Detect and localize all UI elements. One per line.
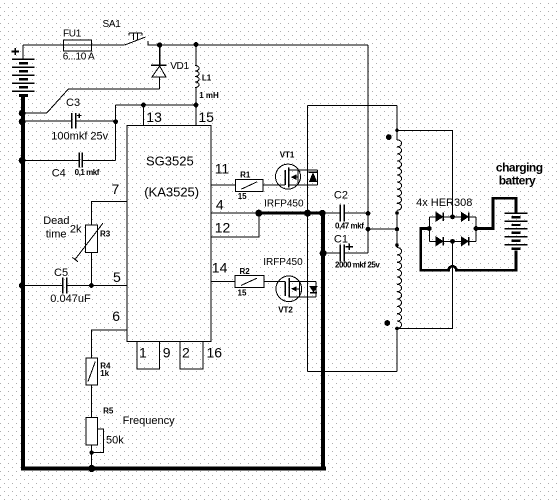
svg-text:50k: 50k: [106, 434, 124, 446]
wire: winding bottom to bridge: [397, 241, 453, 328]
svg-text:7: 7: [112, 181, 120, 197]
wire: thick bottom ground rail: [21, 467, 326, 471]
svg-text:4x HER308: 4x HER308: [416, 197, 472, 209]
svg-text:R3: R3: [100, 229, 111, 238]
svg-text:6...10 A: 6...10 A: [63, 51, 95, 62]
svg-text:SA1: SA1: [103, 19, 122, 30]
capacitor C5: [22, 278, 127, 294]
resistor R2: [235, 276, 264, 288]
wire: thick source rail vertical: [321, 213, 325, 468]
svg-text:1: 1: [139, 344, 147, 360]
capacitor C3: [22, 113, 116, 129]
svg-text:charging: charging: [496, 161, 543, 175]
capacitor C4: [22, 122, 116, 168]
svg-text:16: 16: [207, 344, 223, 360]
svg-text:VD1: VD1: [170, 61, 189, 72]
svg-text:2k: 2k: [70, 223, 82, 235]
IC U1 SG3525 body: [127, 125, 211, 341]
battery GB1 (input 12V) plates: [12, 59, 35, 91]
svg-text:FU1: FU1: [63, 29, 82, 40]
node: VD1 junction on +12V rail: [157, 42, 162, 47]
svg-text:L1: L1: [202, 73, 212, 82]
svg-text:R1: R1: [240, 171, 251, 180]
svg-text:IRFP450: IRFP450: [264, 198, 304, 209]
node: C2 right junction: [366, 211, 371, 216]
resistor R1: [235, 179, 263, 191]
svg-text:6: 6: [112, 308, 120, 324]
node: ground rail / R5 junction: [88, 465, 95, 472]
transistor VT2 (MOSFET): [276, 276, 317, 302]
svg-text:R2: R2: [240, 267, 251, 276]
svg-text:15: 15: [238, 192, 247, 201]
wire: pin 11 to R1: [211, 184, 235, 186]
node: L1 junction on +12V rail: [194, 42, 199, 47]
wire: bridge plus to charging battery: [476, 198, 516, 228]
node: C1 left junction: [320, 250, 327, 257]
transistor VT1 (MOSFET): [276, 164, 318, 189]
node: C2 left junction: [319, 210, 326, 217]
svg-text:C2: C2: [334, 190, 348, 202]
battery + sign: [11, 48, 19, 55]
node: pin4/12 junction: [255, 210, 262, 217]
svg-text:C3: C3: [66, 97, 80, 109]
svg-text:4: 4: [216, 197, 224, 213]
svg-text:15: 15: [198, 109, 214, 125]
capacitor C2: [323, 204, 368, 221]
wire: VT2 drain bottom to transformer: [308, 329, 398, 372]
wire: pin 12 to source node: [211, 213, 259, 237]
diode bridge 4x HER308: [427, 213, 479, 246]
node: C4 left junction on minus bus: [19, 157, 26, 164]
pin boxes 2/16: [180, 341, 203, 368]
body diode of VT1: [309, 171, 318, 173]
wire: thick battery minus bus: [21, 95, 25, 470]
trimmer R3: [72, 223, 103, 262]
svg-text:C1: C1: [334, 234, 348, 246]
wire: pin 13 stub: [143, 105, 145, 125]
wire: C3 to pins 13,15: [116, 105, 196, 122]
inductor L1: [195, 45, 196, 66]
transformer T1 winding: [396, 105, 398, 140]
svg-text:100mkf 25v: 100mkf 25v: [51, 131, 108, 143]
battery GB2 (charging) plates: [504, 213, 527, 244]
svg-text:(KA3525): (KA3525): [144, 185, 199, 200]
svg-text:VT2: VT2: [278, 306, 293, 315]
wire: center tap to +12V: [368, 228, 397, 230]
diode VD1: [151, 45, 167, 89]
wire: pin 4 to source node: [211, 212, 259, 214]
svg-text:13: 13: [146, 109, 162, 125]
wire: bridge minus to charging battery (thick loop): [421, 229, 516, 271]
wire: winding top to bridge: [397, 130, 453, 217]
wire: R5 bottom to ground rail: [91, 445, 93, 467]
svg-text:R5: R5: [103, 406, 114, 415]
svg-text:11: 11: [215, 160, 230, 176]
fuse FU1: [63, 40, 91, 51]
svg-text:battery: battery: [499, 174, 536, 188]
wire: thick source rail horizontal: [259, 212, 324, 215]
wire: L1 to pin 15: [195, 88, 196, 126]
resistor R4: [86, 358, 97, 385]
svg-text:14: 14: [212, 259, 228, 275]
svg-text:15: 15: [238, 289, 247, 298]
wire: +12V drop to C1/C2/center tap: [367, 45, 369, 253]
capacitor C1: [323, 244, 368, 261]
body diode of VT2: [310, 292, 317, 294]
svg-text:5: 5: [113, 269, 121, 285]
svg-text:0,47 mkf: 0,47 mkf: [335, 221, 364, 230]
svg-text:C4: C4: [52, 168, 66, 180]
wire: R3 bottom to pin 5 line: [90, 253, 92, 286]
wire: VD1 anode to battery minus (diagonal): [22, 89, 160, 113]
svg-text:2: 2: [182, 344, 190, 360]
node: R3/pin5 junction: [89, 283, 94, 288]
wire: pin 7 to R3: [91, 201, 126, 225]
node: winding section ends: [395, 211, 399, 215]
node: center tap junctions: [366, 227, 371, 232]
potentiometer R5: [86, 418, 104, 453]
wire: pin 14 to R2: [211, 281, 235, 283]
wire: top +12V rail: [23, 44, 368, 46]
svg-text:2000 mkf 25v: 2000 mkf 25v: [335, 260, 380, 269]
svg-text:9: 9: [163, 344, 171, 360]
node: VT1/VT2 source junction: [304, 210, 311, 217]
svg-text:0,1 mkf: 0,1 mkf: [75, 168, 100, 177]
wire: VT1 drain / VT2 drain vertical rail: [307, 105, 309, 371]
svg-text:IRFP450: IRFP450: [263, 257, 303, 268]
svg-text:0.047uF: 0.047uF: [50, 293, 91, 305]
svg-text:SG3525: SG3525: [146, 154, 194, 169]
node: C3 left junction on minus bus: [19, 110, 26, 117]
node: C5 left junction on minus bus: [19, 283, 25, 289]
wire: VT1 drain top rail to transformer: [308, 104, 398, 106]
wire: R2 to VT2 gate: [264, 281, 285, 283]
wire: R4 to R5: [91, 385, 93, 418]
node: pin15/pin13 supply junction: [194, 103, 199, 108]
node: pin13 junction: [141, 103, 146, 108]
svg-text:VT1: VT1: [280, 151, 295, 160]
svg-text:C5: C5: [54, 267, 68, 279]
svg-text:Frequency: Frequency: [123, 415, 175, 427]
svg-text:1 mH: 1 mH: [199, 91, 219, 100]
transformer phasing dots: [386, 134, 392, 140]
C3 + sign: [77, 113, 81, 118]
wire: pin 6 to R4: [92, 330, 127, 358]
svg-text:1k: 1k: [100, 369, 109, 378]
svg-text:12: 12: [215, 220, 231, 236]
battery GB1 positive lead: [22, 45, 24, 59]
svg-text:Dead: Dead: [43, 215, 69, 227]
svg-text:time: time: [46, 229, 67, 241]
pin boxes 1/9: [137, 341, 160, 368]
node: C3/C4 right junction: [113, 119, 118, 124]
C1 + sign: [346, 243, 353, 250]
wire: R1 to VT1 gate: [263, 184, 285, 186]
node: R5 wiper junction: [89, 450, 93, 454]
switch SA1: [125, 33, 148, 45]
